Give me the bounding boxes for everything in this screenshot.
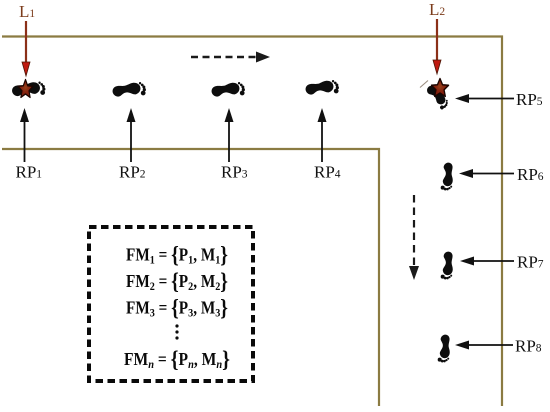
wire: arrow to RP4 [318, 108, 327, 162]
svg-text:FM1 = {P1, M1}: FM1 = {P1, M1} [126, 242, 228, 267]
svg-text:FMn = {Pn, Mn}: FMn = {Pn, Mn} [124, 347, 230, 372]
wire: arrow to RP1 [20, 108, 29, 162]
svg-text:RP5: RP5 [516, 90, 543, 109]
wire: red arrow from L1 [22, 21, 30, 76]
node RP2 footprint [112, 82, 147, 99]
svg-text:FM3 = {P3, M3}: FM3 = {P3, M3} [126, 295, 228, 320]
svg-text:RP8: RP8 [515, 337, 542, 356]
svg-text:RP1: RP1 [16, 163, 43, 182]
svg-text:RP3: RP3 [221, 163, 248, 182]
svg-text:RP4: RP4 [314, 163, 341, 182]
node fingerprint-map legend box [89, 227, 253, 381]
node vertical ellipsis [175, 324, 178, 339]
node RP7 footprint [440, 251, 454, 280]
wire: red arrow from L2 [433, 19, 441, 74]
wire: dashed direction arrow (vertical) [409, 195, 419, 280]
node RP1 star (landmark) [18, 80, 33, 98]
node RP8 footprint [437, 334, 451, 363]
wire: arrow to RP6 [459, 169, 514, 178]
wire: stray diagonal tick near RP5 [420, 81, 428, 88]
wire: inner corridor wall (second horizontal + inner vertical) [2, 149, 379, 406]
svg-text:L1: L1 [19, 2, 35, 21]
svg-text:FM2 = {P2, M2}: FM2 = {P2, M2} [126, 269, 228, 294]
node RP6 footprint [440, 162, 454, 191]
wire: arrow to RP8 [455, 341, 513, 350]
svg-text:RP2: RP2 [119, 163, 146, 182]
wire: dashed direction arrow (horizontal) [191, 52, 270, 63]
wire: arrow to RP2 [127, 108, 136, 162]
node RP5 footprint [424, 83, 450, 110]
svg-text:RP6: RP6 [517, 165, 544, 184]
node RP1 footprint [11, 81, 46, 98]
wire: arrow to RP7 [460, 257, 514, 266]
svg-text:RP7: RP7 [517, 253, 544, 272]
wire: arrow to RP5 [455, 94, 514, 103]
wire: arrow to RP3 [225, 108, 234, 162]
node RP5 star (landmark) [431, 79, 448, 97]
svg-text:L2: L2 [429, 0, 445, 19]
node RP3 footprint [211, 82, 246, 99]
node RP4 footprint [305, 80, 340, 97]
